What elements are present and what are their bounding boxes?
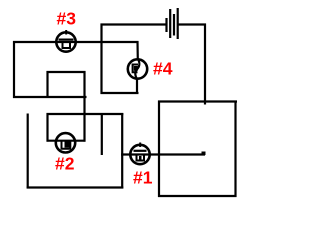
wire lamp4 vertical branch upper bbox=[136, 41, 139, 60]
wire bottom horizontal bbox=[27, 186, 124, 188]
svg-text:#2: #2 bbox=[55, 153, 75, 173]
svg-text:#1: #1 bbox=[133, 167, 153, 187]
wire right vertical from battery bbox=[204, 24, 206, 105]
wire left side vertical bbox=[13, 41, 15, 98]
wire mid vertical from battery wire bbox=[100, 24, 102, 95]
lamp #3 bbox=[56, 30, 75, 52]
wire right box right side bbox=[234, 101, 236, 198]
lamp #1 bbox=[130, 143, 149, 165]
wire lamp1 row bbox=[121, 153, 205, 155]
wire small box left side bbox=[46, 71, 48, 97]
wire lamp4 vertical branch lower bbox=[136, 78, 138, 94]
wire right box bottom bbox=[158, 195, 237, 197]
wire top row through lamp 3 bbox=[13, 41, 139, 43]
wire lamp2 row bbox=[47, 140, 86, 142]
wire end nub bbox=[202, 152, 206, 156]
wire right box left side bbox=[158, 101, 160, 198]
wire long vertical through crossings bbox=[83, 71, 85, 142]
wire battery left lead bbox=[101, 23, 167, 25]
wire lamp2 box left side bbox=[46, 113, 48, 142]
svg-text:#4: #4 bbox=[153, 58, 173, 78]
wire battery right lead bbox=[178, 23, 206, 25]
wire small box top bbox=[47, 71, 86, 73]
wire right box top bbox=[158, 100, 237, 102]
wire lamp2 box top bbox=[47, 113, 124, 115]
wire bottom of mid loop bbox=[101, 92, 139, 94]
wire lower-left horizontal bbox=[13, 96, 87, 98]
wire stub vertical free end bbox=[101, 113, 103, 155]
battery B1 bbox=[167, 8, 178, 39]
svg-text:#3: #3 bbox=[57, 9, 77, 29]
lamp #2 bbox=[56, 133, 75, 152]
wire lamp1 box left vertical bbox=[121, 113, 123, 189]
wire outer-left vertical bbox=[27, 114, 29, 189]
lamp #4 bbox=[128, 59, 147, 80]
